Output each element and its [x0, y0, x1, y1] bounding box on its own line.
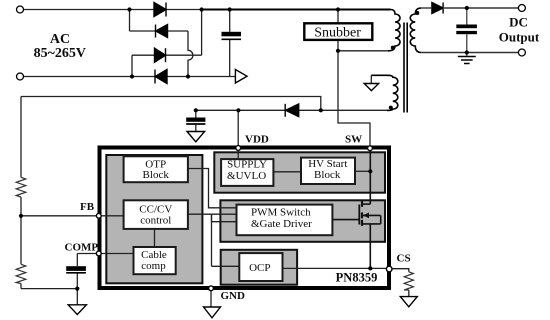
svg-text:CS: CS	[397, 253, 411, 265]
svg-text:SW: SW	[345, 134, 362, 146]
svg-text:COMP: COMP	[65, 242, 99, 254]
svg-text:FB: FB	[80, 201, 95, 213]
svg-text:Block: Block	[314, 169, 341, 181]
svg-text:&UVLO: &UVLO	[227, 170, 266, 182]
svg-text:Cable: Cable	[141, 249, 167, 261]
svg-text:DC: DC	[509, 15, 528, 30]
svg-text:VDD: VDD	[245, 134, 269, 146]
svg-text:85~265V: 85~265V	[34, 46, 86, 61]
svg-text:control: control	[140, 214, 171, 226]
svg-text:comp: comp	[141, 260, 166, 272]
svg-text:PN8359: PN8359	[336, 271, 378, 285]
svg-text:OCP: OCP	[249, 262, 270, 274]
svg-text:GND: GND	[221, 290, 246, 302]
svg-text:AC: AC	[50, 32, 70, 47]
svg-text:Output: Output	[499, 29, 540, 44]
svg-text:Snubber: Snubber	[314, 25, 361, 40]
svg-text:PWM Switch: PWM Switch	[251, 206, 311, 218]
svg-text:SUPPLY: SUPPLY	[227, 159, 267, 171]
svg-text:&Gate Driver: &Gate Driver	[251, 218, 312, 230]
svg-text:Block: Block	[143, 169, 170, 181]
